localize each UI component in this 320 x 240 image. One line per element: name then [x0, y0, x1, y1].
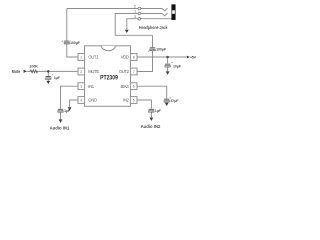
jack contact circle 2 [138, 7, 141, 10]
port arrow +5V [187, 56, 190, 59]
svg-text:100µF: 100µF [156, 47, 167, 51]
wire C1 to pin1 [67, 44, 78, 57]
svg-text:1: 1 [80, 55, 82, 59]
jack contact circle 3 [138, 17, 141, 20]
svg-text:OUT2: OUT2 [119, 69, 130, 74]
svg-text:10µF: 10µF [173, 64, 182, 68]
pin 1 box [78, 54, 85, 61]
wire IN2 [137, 100, 151, 118]
ground arrow (10uF) [166, 71, 170, 74]
svg-text:6: 6 [133, 85, 135, 89]
svg-text:4: 4 [80, 98, 82, 102]
svg-text:VDD: VDD [121, 55, 129, 60]
svg-text:1: 1 [134, 10, 136, 14]
resistor R1 zigzag [29, 70, 38, 73]
pin 2 box [78, 68, 85, 75]
port arrow Mute [24, 70, 27, 73]
IC U1 PT2309 body [85, 46, 131, 107]
wire jack contact 3 left [127, 19, 138, 30]
wire VDD to +5V [137, 56, 187, 58]
text labels [134, 5, 136, 19]
svg-text:1µF: 1µF [155, 109, 162, 113]
svg-text:2: 2 [80, 70, 82, 74]
svg-text:BIAS: BIAS [120, 84, 129, 89]
svg-text:1µF: 1µF [54, 76, 61, 80]
jack contact circles [138, 7, 141, 20]
ground arrow (mute cap) [46, 81, 50, 84]
pin 8 box [130, 54, 137, 61]
svg-text:+: + [148, 50, 150, 54]
wire OUT1 to C1 vertical [66, 9, 68, 41]
ground arrow (47uF) [165, 103, 169, 106]
capacitor C2 100uF (OUT2) [150, 47, 155, 50]
svg-text:8: 8 [133, 55, 135, 59]
IC notch [102, 46, 116, 51]
wire BIAS [137, 86, 167, 103]
svg-text:100K: 100K [29, 65, 38, 69]
capacitor C7 1uF (IN2) [149, 109, 154, 112]
svg-text:3: 3 [80, 85, 82, 89]
svg-text:Audio IN1: Audio IN1 [50, 126, 71, 131]
wire mute cap drop [47, 71, 49, 81]
pin 5 box [130, 97, 137, 104]
wire C2 vertical OUT2 [137, 35, 153, 71]
svg-text:1µF: 1µF [64, 109, 71, 113]
wire tip line (jack contact 2) top [67, 8, 138, 10]
junction dot mute [47, 70, 50, 73]
svg-text:PT2309: PT2309 [100, 75, 118, 81]
svg-text:5: 5 [133, 98, 135, 102]
capacitor C3 10uF (VDD) [165, 64, 170, 67]
svg-text:MUTE: MUTE [88, 69, 99, 74]
capacitor C5 47uF (BIAS) [164, 99, 169, 102]
svg-text:100µF: 100µF [70, 41, 81, 45]
wire jack contact 1 left [115, 14, 152, 36]
capacitor C4 1uF (mute) [46, 76, 51, 79]
svg-text:GND: GND [88, 98, 97, 103]
wire jack contact 2 spring [141, 8, 168, 11]
wire mute input [27, 70, 78, 72]
junction dot VDD [166, 56, 169, 59]
capacitor C6 1uF (IN1) [58, 109, 63, 112]
capacitor C1 100uF (OUT1) [64, 41, 69, 44]
svg-text:+5V: +5V [190, 55, 197, 59]
pin 4 box [78, 97, 85, 104]
pin 3 box [78, 83, 85, 90]
pin name labels [88, 55, 129, 103]
svg-text:OUT1: OUT1 [88, 55, 99, 60]
jack contact circle 1 [138, 12, 141, 15]
svg-text:Headphone Jack: Headphone Jack [139, 25, 168, 30]
pin number labels [80, 55, 134, 102]
pin 7 box [130, 68, 137, 75]
svg-text:47µF: 47µF [170, 99, 179, 103]
svg-text:7: 7 [133, 70, 135, 74]
wire pin4 GND [70, 100, 78, 107]
wire 10uF drop [167, 57, 169, 71]
wire jack contact 1 spring [141, 13, 168, 16]
ground arrow (jack sleeve) [125, 30, 129, 33]
svg-text:Mute: Mute [12, 69, 21, 74]
wire jack contact 3 right [141, 18, 172, 20]
port arrow Audio IN2 [150, 118, 154, 121]
headphone plug bar [172, 5, 176, 20]
svg-text:2: 2 [134, 5, 136, 9]
ground arrow (pin4) [68, 107, 72, 110]
port arrow Audio IN1 [59, 119, 63, 122]
svg-text:Audio IN2: Audio IN2 [141, 124, 162, 129]
pin 6 box [130, 83, 137, 90]
svg-text:3: 3 [134, 15, 136, 19]
wire IN1 [61, 86, 79, 119]
